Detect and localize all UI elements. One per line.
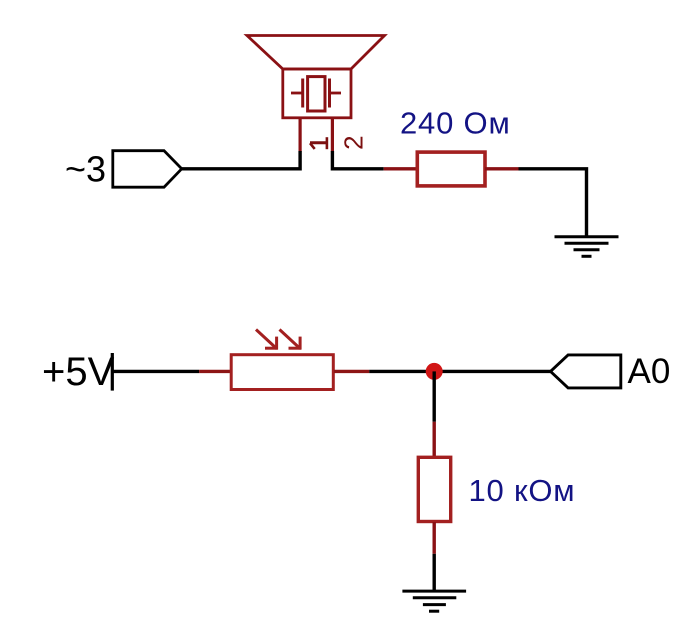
wire from resistor to ground (519, 169, 587, 237)
resistor stub top (10 кОм) (433, 422, 436, 457)
power +5V (42, 350, 115, 394)
connector ~3 (65, 148, 182, 189)
piezo buzzer (247, 36, 385, 118)
svg-text:10 кОм: 10 кОм (469, 473, 576, 508)
svg-text:240 Ом: 240 Ом (400, 106, 511, 141)
resistor stub bottom (10 кОм) (433, 522, 436, 554)
photoresistor stub right (334, 370, 369, 373)
pin 1 (299, 118, 302, 152)
ground (bottom) (402, 591, 466, 611)
pin number 2 (338, 135, 368, 149)
junction node (426, 363, 443, 380)
value label 10 кОм (469, 473, 576, 508)
value label 240 Ом (400, 106, 511, 141)
photoresistor (231, 330, 333, 390)
resistor 240 Ом (417, 152, 485, 186)
wire from photoresistor to connector A0 (369, 370, 550, 373)
svg-text:~3: ~3 (65, 148, 106, 189)
wire from buzzer pin 2 to resistor (332, 151, 383, 169)
connector A0 (551, 352, 671, 391)
resistor 10 кОм (418, 457, 450, 521)
resistor stub right (240 Ом) (485, 167, 519, 170)
resistor stub left (240 Ом) (384, 167, 417, 170)
svg-text:2: 2 (338, 135, 368, 149)
pin number 1 (310, 137, 327, 149)
wire from +5V to photoresistor (112, 370, 199, 373)
svg-text:+5V: +5V (42, 350, 115, 394)
pin 2 (331, 118, 334, 152)
photoresistor stub left (199, 370, 231, 373)
ground (top right) (555, 237, 619, 256)
svg-text:A0: A0 (628, 352, 671, 391)
wire from junction down to resistor (433, 371, 436, 421)
wire from resistor to ground (bottom) (433, 554, 436, 591)
wire from connector ~3 to buzzer pin 1 (182, 151, 300, 169)
